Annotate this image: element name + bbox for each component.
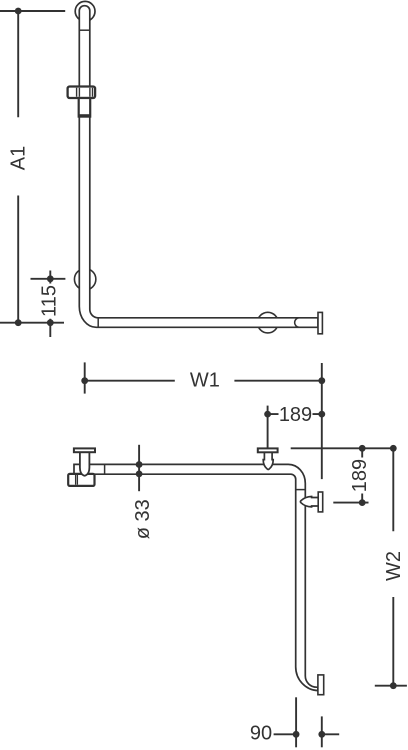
joint line near rail top bbox=[79, 29, 90, 31]
slider knob divider lines bbox=[77, 88, 93, 97]
wall plate at right end of grab bar bbox=[318, 312, 322, 333]
dimension line 115 bbox=[49, 271, 51, 338]
dot 90 right bbox=[318, 731, 325, 738]
witness line 90 right bbox=[321, 716, 323, 747]
joint line after bend on horizontal tube bbox=[97, 318, 99, 328]
tick 189r bottom bbox=[333, 502, 368, 504]
witness line 90 left bbox=[295, 697, 297, 747]
dimension line W1 bbox=[85, 380, 322, 382]
dimension tick bottom (A1 / 115) bbox=[0, 322, 64, 324]
mount 1 stem and dome (rail seen from top) bbox=[80, 452, 90, 476]
dot 115 bottom bbox=[47, 319, 54, 326]
dot W1 right bbox=[318, 377, 325, 384]
dimension line dia 33 bbox=[138, 445, 140, 491]
dot W1 left bbox=[81, 377, 88, 384]
svg-text:W2: W2 bbox=[383, 551, 405, 581]
L-shaped tube (top view) bbox=[74, 464, 318, 690]
inner sleeve dome near right end bbox=[295, 318, 300, 328]
dot 189r top bbox=[359, 445, 366, 452]
svg-text:ø 33: ø 33 bbox=[132, 499, 154, 539]
wall flange ring at top of shower rail bbox=[75, 1, 95, 21]
dot A1 top bbox=[15, 8, 22, 15]
dot dia33 top bbox=[136, 461, 143, 468]
witness line 189 left bbox=[267, 406, 269, 449]
dimension line 189 right bbox=[361, 448, 363, 502]
wall mount circle on vertical rail bbox=[74, 269, 95, 290]
witness line W1 left bbox=[84, 362, 86, 393]
svg-text:115: 115 bbox=[39, 285, 61, 317]
svg-text:189: 189 bbox=[279, 404, 312, 426]
side mount wall flange bbox=[318, 492, 323, 512]
dimension tick top (A1) bbox=[0, 10, 65, 12]
dot A1 bottom bbox=[15, 319, 22, 326]
holder sleeve bottom rim bbox=[79, 114, 91, 117]
svg-text:90: 90 bbox=[250, 723, 272, 745]
shower head holder sleeve bbox=[79, 98, 91, 117]
dimension line 189 top bbox=[268, 413, 322, 415]
dot 189r bottom bbox=[359, 499, 366, 506]
mount 2 stem and cone bbox=[263, 452, 273, 469]
dot W2 top bbox=[390, 445, 397, 452]
mount 2 wall flange bbox=[258, 448, 278, 452]
wall witness line right bbox=[291, 447, 395, 449]
svg-text:189: 189 bbox=[349, 459, 371, 492]
mount 1 wall flange bbox=[74, 448, 95, 452]
witness line W1/189 right (long) bbox=[321, 363, 323, 479]
dimension line W2 bbox=[392, 448, 394, 685]
svg-text:A1: A1 bbox=[8, 146, 30, 170]
joint line on vertical tube (top view) bbox=[296, 489, 306, 491]
slider knob divider (top view) bbox=[76, 475, 78, 485]
side mount stem and cone bbox=[300, 497, 318, 507]
dot 189 left bbox=[264, 411, 271, 418]
slider seen from top bbox=[68, 474, 94, 486]
dot 189 right bbox=[318, 411, 325, 418]
tick W2 bottom bbox=[375, 685, 407, 687]
dot W2 bottom bbox=[390, 682, 397, 689]
joint line on horizontal tube (top view) bbox=[104, 464, 106, 474]
dimension line 90 bbox=[274, 733, 340, 735]
wall mount circle on horizontal grab bar bbox=[258, 312, 279, 333]
wall plate at bottom end (top view) bbox=[318, 675, 324, 695]
dimension line A1 bbox=[17, 11, 19, 323]
dot 90 left bbox=[293, 731, 300, 738]
dot 115 top bbox=[47, 275, 54, 282]
dot dia33 bottom bbox=[136, 471, 143, 478]
svg-text:W1: W1 bbox=[190, 370, 220, 392]
shower head slider block bbox=[68, 87, 96, 99]
dimension tick 115 top bbox=[31, 278, 66, 280]
L-shaped rail tube (front view) bbox=[79, 6, 318, 328]
